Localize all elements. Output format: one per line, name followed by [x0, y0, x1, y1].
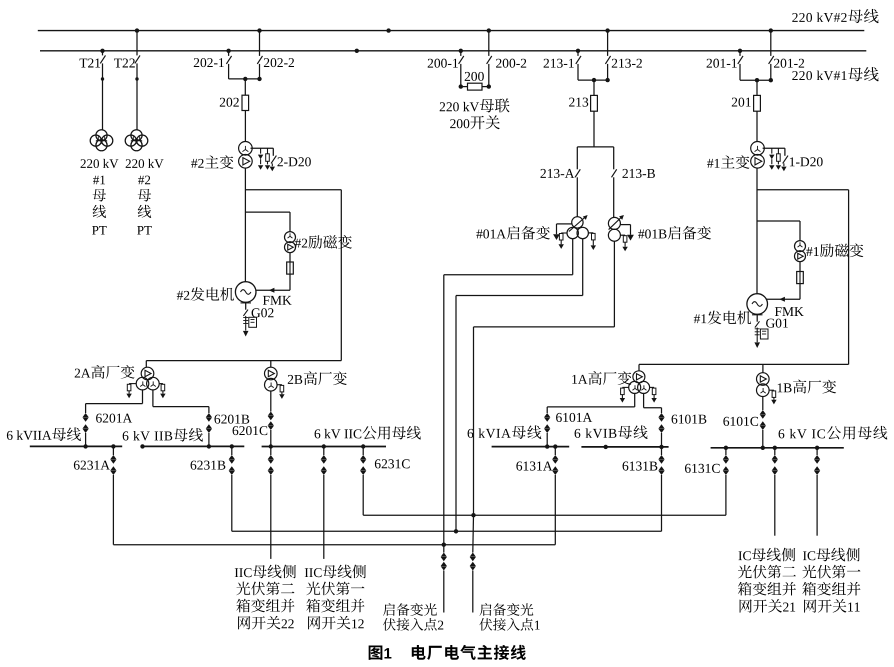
transformer 2B高厂变 (two-winding) — [265, 367, 278, 391]
label 1A高厂变 — [572, 371, 631, 385]
breaker 6231B — [229, 444, 235, 531]
label 6kV IC bus — [779, 426, 888, 440]
breaker 6131B — [658, 447, 664, 531]
wire tie 6231A-6131A — [113, 543, 555, 547]
label 6kV IIB bus — [123, 428, 203, 442]
arrester 1A left — [620, 387, 629, 402]
PT 220kV #2 bus PT — [125, 130, 148, 151]
breaker PV switch 11 feeder — [814, 446, 820, 536]
disconnect 202-1 — [226, 49, 231, 79]
wire 213 split node — [577, 146, 613, 148]
label #01A启备变 — [476, 226, 550, 240]
label #01B启备变 — [638, 226, 711, 240]
label 6131A — [516, 462, 552, 471]
label 6kV IIA bus — [7, 427, 81, 441]
wire 202 junction — [229, 77, 262, 95]
label G01 — [766, 319, 788, 328]
breaker 6101C — [760, 397, 766, 450]
label 213-A — [540, 169, 574, 178]
label 202-2 — [264, 58, 294, 67]
breaker PV access point 1 — [470, 515, 476, 612]
label PV access point 1 — [479, 603, 539, 631]
breaker 6231A — [110, 444, 116, 545]
wire 213 junction — [578, 78, 610, 96]
label 2B高厂变 — [288, 371, 347, 385]
generator #2发电机 G02 — [235, 282, 256, 303]
label IIC PV switch 22 — [235, 565, 296, 630]
wire T22 to PT — [135, 77, 138, 129]
wire fuse to generator 2 — [256, 274, 290, 293]
breaker 6201A — [83, 390, 143, 449]
wire 2B feed tap — [270, 361, 272, 368]
disconnect 213-1 — [576, 49, 581, 81]
arrow ground #01B — [627, 225, 634, 241]
label 6kV IB bus — [575, 425, 648, 439]
breaker 213 — [591, 95, 598, 111]
label 6231C — [375, 459, 410, 468]
arrester #01A right — [591, 233, 596, 250]
label 6kV IIC bus — [315, 426, 421, 440]
wire unit2 aux feed — [146, 361, 341, 368]
arrester 2A left — [126, 384, 136, 399]
wire 1A feed — [639, 364, 849, 370]
label T21 — [80, 59, 101, 68]
wire #1主变 to generator — [756, 168, 758, 294]
disconnect 200-2 — [487, 28, 492, 86]
wire neutral 1-D20 branch — [763, 147, 785, 149]
breaker 6231C — [360, 444, 366, 515]
label 220 kV#2 bus — [792, 9, 878, 23]
arrow ground #01A left — [553, 224, 560, 240]
label 220 kV #1 bus PT — [81, 159, 119, 235]
label 6131B — [623, 462, 658, 471]
bus 6kV IIC公用母线 — [262, 446, 386, 448]
arrester 1B — [769, 390, 777, 404]
wire gen2 aux branch — [245, 190, 341, 361]
wire 201 to #1 main transformer — [756, 111, 758, 141]
label 213-1 — [544, 59, 574, 68]
label 220 kV #2 bus PT — [126, 159, 164, 235]
label 201 — [732, 98, 751, 107]
fuse FMK unit1 — [797, 272, 804, 284]
breaker 6201C — [268, 391, 274, 449]
transformer 1A高厂变 (three-winding) — [629, 371, 650, 394]
label 213-B — [622, 169, 654, 178]
220 kV #2 bus (220 kV#2母线) — [38, 30, 865, 32]
label 220 kV母联 — [440, 98, 510, 112]
label IC PV switch 11 — [802, 548, 860, 613]
wire #01A winding a to tie — [444, 239, 573, 545]
wire excitation to fuse — [289, 253, 291, 262]
transformer #2主变 (two-winding) — [239, 142, 253, 169]
wire tie 6231C-6131C — [363, 513, 726, 517]
arrester #01A left — [559, 233, 568, 249]
breaker 201 — [754, 95, 761, 111]
label 1-D20 — [790, 157, 823, 166]
transformer 2A高厂变 (three-winding) — [136, 367, 159, 390]
generator #1发电机 G01 — [747, 294, 768, 315]
ground switch 2-D20 — [270, 148, 277, 171]
label 6101B — [672, 415, 707, 424]
label #2励磁变 — [295, 235, 352, 249]
transformer #2励磁变 — [285, 232, 296, 253]
label FMK unit2 — [263, 296, 292, 305]
label 6231B — [191, 461, 226, 470]
arrester 2-D20 a — [258, 148, 263, 170]
disconnect 201-1 — [738, 49, 743, 81]
bus 6kV IIB母线 — [140, 444, 244, 448]
wire #01B HV right stub — [620, 224, 630, 226]
breaker 6131C — [723, 446, 729, 516]
label 213-2 — [612, 59, 642, 68]
disconnect 213-2 — [605, 28, 610, 80]
wire gen2 excitation branch — [245, 212, 290, 232]
label 6101C — [723, 417, 758, 426]
disconnect T21 — [100, 49, 105, 79]
ground gen2 neutral — [241, 302, 257, 336]
wire 201 junction — [740, 78, 773, 95]
wire #01B LV stub — [620, 234, 625, 236]
label 2A高厂变 — [75, 365, 135, 379]
breaker 200 (bus tie) — [459, 83, 491, 90]
label 6101A — [556, 413, 592, 422]
label #2发电机 — [177, 287, 234, 301]
transformer 1B高厂变 (two-winding) — [757, 373, 770, 397]
label #1发电机 — [694, 311, 751, 325]
wire 213 to split — [593, 111, 595, 147]
bus 6kV IA母线 — [492, 446, 570, 448]
label 202 — [220, 98, 239, 107]
transformer #01A启备变 (three-winding, on-load tap) — [567, 215, 588, 239]
wire fuse to generator 1 — [766, 284, 800, 302]
disconnect 200-1 — [459, 49, 464, 87]
label 201-2 — [774, 59, 804, 68]
bus 6kV IB母线 — [581, 445, 668, 449]
label 6201A — [96, 414, 132, 423]
ground gen1 neutral — [752, 314, 768, 348]
label 202-1 — [194, 58, 224, 67]
label 6201C — [233, 426, 268, 435]
label 2-D20 — [277, 157, 310, 166]
label 213 — [569, 98, 588, 107]
breaker PV switch 21 feeder — [772, 446, 778, 536]
wire gen1 aux branch — [757, 190, 849, 365]
transformer #01B启备变 (two-winding, on-load tap) — [608, 215, 624, 241]
breaker PV switch 12 feeder — [321, 444, 327, 559]
arrester 1-D20 a — [769, 148, 774, 170]
wire T21 to PT — [101, 77, 104, 129]
disconnect 202-2 — [257, 28, 262, 79]
label 6231A — [74, 461, 110, 470]
disconnect 213-B — [612, 147, 617, 218]
breaker 6201B — [153, 390, 212, 449]
wire 1B feed tap — [762, 364, 764, 372]
breaker PV access point 2 — [441, 545, 447, 613]
junction dot on bus2 — [386, 28, 390, 32]
label 200 — [465, 72, 484, 81]
label 200-2 — [496, 59, 526, 68]
label 220 kV#1 bus — [792, 67, 878, 81]
wire #01A HV left stub — [557, 223, 572, 225]
disconnect 201-2 — [769, 28, 774, 80]
label 200-1 — [428, 59, 458, 68]
arrester #01B — [622, 235, 627, 251]
transformer #1励磁变 — [795, 241, 806, 262]
wire #2主变 to generator — [244, 168, 246, 281]
fuse FMK unit2 — [287, 262, 294, 274]
PT 220kV #1 bus PT — [90, 130, 113, 151]
wire 202 to #2 main transformer — [244, 111, 246, 142]
arrester 1A right — [650, 387, 657, 402]
transformer #1主变 (two-winding) — [751, 142, 765, 169]
breaker 6101B — [644, 393, 665, 449]
label T22 — [114, 59, 135, 68]
breaker 202 — [242, 95, 249, 110]
label #1主变 — [707, 155, 749, 169]
wire tie 6231B-6131B — [232, 530, 662, 532]
label PV access point 2 — [383, 603, 443, 631]
label 1B高厂变 — [778, 380, 837, 394]
label G02 — [252, 308, 274, 317]
breaker PV switch 22 feeder — [268, 447, 274, 559]
junction dot on bus1 — [355, 49, 359, 53]
label FMK unit1 — [775, 307, 804, 316]
bus 6kV IC公用母线 — [711, 447, 844, 449]
220 kV #1 bus (220 kV#1母线) — [40, 50, 866, 52]
ground switch 1-D20 — [781, 148, 788, 171]
wire #01A winding b to tie — [454, 239, 583, 534]
bus 6kV IIA母线 — [30, 445, 122, 447]
arrester 2-D20 b — [265, 148, 270, 170]
wire #01A LV right stub — [588, 232, 593, 234]
label 6201B — [214, 415, 249, 424]
wire neutral 2-D20 branch — [251, 147, 274, 149]
breaker 6131A — [552, 444, 558, 544]
label 200开关 — [450, 115, 500, 129]
label #1励磁变 — [806, 243, 863, 257]
label 201-1 — [707, 59, 737, 68]
disconnect 213-A — [575, 147, 580, 217]
arrester 1-D20 b — [776, 148, 781, 170]
label 6kV IA bus — [468, 425, 542, 439]
breaker 6101A — [544, 393, 635, 448]
label IC PV switch 21 — [738, 548, 796, 613]
caption 图1 电厂电气主接线 — [369, 645, 526, 660]
label #2主变 — [191, 155, 233, 169]
wire gen1 excitation branch — [757, 221, 800, 241]
arrester 2B — [277, 385, 285, 399]
label IIC PV switch 12 — [305, 565, 366, 630]
label 6131C — [685, 464, 720, 473]
wire #01B winding to tie — [474, 241, 615, 515]
wire excitation1 to fuse — [799, 262, 801, 272]
arrester 2A right — [159, 384, 165, 399]
disconnect T22 — [135, 28, 140, 79]
